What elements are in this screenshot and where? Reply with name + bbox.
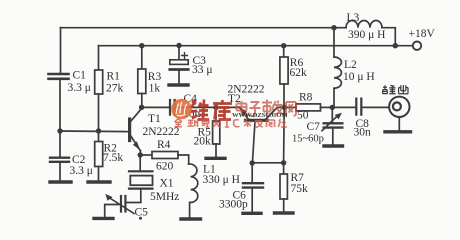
- node C4-R5: [213, 105, 218, 110]
- svg-text:20k: 20k: [194, 136, 212, 148]
- node rail2-R3: [139, 43, 144, 48]
- svg-text:7.5k: 7.5k: [103, 152, 123, 164]
- resistor R3: [138, 69, 146, 94]
- svg-text:33 μ: 33 μ: [192, 64, 213, 76]
- capacitor C6: [251, 163, 253, 183]
- wire base line: [60, 130, 128, 133]
- terminal +18V: [413, 42, 421, 50]
- capacitor C5 (variable trimmer): [121, 196, 125, 212]
- resistor R7: [283, 163, 285, 174]
- wire R6 down to base node: [283, 107, 286, 162]
- node rail1-L3-L2: [331, 25, 336, 30]
- capacitor C4: [170, 100, 175, 115]
- svg-text:620: 620: [156, 161, 174, 173]
- watermark row3: 全球最大IC采购网站: [175, 119, 287, 128]
- resistor R4 (horizontal): [140, 154, 152, 156]
- svg-text:R1: R1: [107, 71, 121, 83]
- inductor L1 (vertical): [189, 164, 198, 202]
- svg-text:3.3 μ: 3.3 μ: [68, 82, 91, 94]
- svg-text:30n: 30n: [354, 126, 372, 138]
- capacitor C1: [49, 74, 69, 79]
- watermark row1 big: 维库: [191, 100, 232, 120]
- resistor R2: [95, 142, 103, 167]
- svg-text:390 μ H: 390 μ H: [348, 29, 385, 41]
- transistor T1 2N2222: [128, 119, 131, 141]
- star mark: [139, 217, 142, 220]
- svg-text:C5: C5: [135, 207, 149, 219]
- inductor L2 (vertical): [333, 28, 335, 57]
- svg-text:L2: L2: [344, 59, 357, 71]
- wire R2 top: [98, 131, 100, 142]
- svg-text:+18V: +18V: [409, 28, 436, 40]
- svg-text:5MHz: 5MHz: [150, 191, 179, 203]
- ground C7: [324, 144, 343, 147]
- svg-text:27k: 27k: [106, 83, 124, 95]
- inductor L3 (horizontal): [334, 27, 346, 29]
- wire C1 column from rail1 down: [60, 28, 62, 73]
- node R6-R8: [282, 105, 287, 110]
- ground C6: [243, 212, 261, 215]
- ground R5: [206, 157, 225, 160]
- wire collector to C4: [142, 106, 170, 108]
- node +18V: [393, 43, 398, 48]
- resistor R5: [215, 108, 217, 122]
- wire C2 top: [59, 131, 61, 157]
- capacitor C3 (electrolytic): [178, 46, 180, 60]
- ground R7: [275, 211, 294, 214]
- ground output: [385, 130, 411, 133]
- node emitter-R4-X1: [138, 152, 143, 157]
- svg-text:3.3 μ: 3.3 μ: [70, 165, 93, 177]
- svg-text:WWW.DZSC.COM: WWW.DZSC.COM: [232, 112, 288, 119]
- svg-text:L3: L3: [347, 12, 360, 24]
- svg-text:3300p: 3300p: [219, 199, 248, 211]
- capacitor C2: [50, 158, 69, 162]
- label 输出 (output, drawn strokes): [383, 85, 409, 94]
- svg-text:X1: X1: [160, 178, 174, 190]
- wire rail1 top (C1 top to L3 left): [61, 27, 333, 29]
- wire R1 column: [98, 46, 100, 70]
- resistor R1: [95, 70, 103, 94]
- svg-text:C1: C1: [73, 70, 87, 82]
- svg-text:15~60p: 15~60p: [292, 133, 324, 144]
- svg-text:T1: T1: [148, 113, 161, 125]
- wire rail2 (R1 corner to +18V node): [99, 45, 396, 47]
- wire to T2 emitter: [216, 106, 240, 108]
- node base T2 / C6: [250, 160, 255, 165]
- output connector: [389, 97, 409, 117]
- capacitor C7 (variable): [324, 123, 343, 127]
- svg-text:330 μ H: 330 μ H: [203, 174, 240, 186]
- ground L1: [181, 217, 201, 220]
- svg-text:62k: 62k: [290, 67, 308, 79]
- watermark row1 small: 电子市场网: [237, 100, 297, 117]
- ground C5: [94, 217, 113, 220]
- svg-text:1k: 1k: [149, 82, 161, 94]
- capacitor C8: [332, 106, 355, 108]
- ground C3: [169, 83, 188, 86]
- wire T2 collector to R8: [277, 106, 296, 108]
- svg-text:R8: R8: [299, 92, 313, 104]
- wire R3 column: [141, 46, 143, 69]
- resistor R8 (horizontal): [296, 104, 321, 111]
- svg-text:C7: C7: [307, 121, 321, 133]
- ground C2: [50, 180, 71, 183]
- svg-text:R3: R3: [148, 71, 162, 83]
- node collector T1: [139, 105, 144, 110]
- watermark logo disc: [171, 99, 192, 120]
- resistor R6: [281, 43, 286, 48]
- transistor T2 2N2222 (common base, drawn inverted): [246, 119, 268, 122]
- ground R2: [88, 180, 110, 183]
- svg-text:2N2222: 2N2222: [143, 126, 180, 138]
- svg-text:50: 50: [297, 110, 309, 122]
- svg-text:10 μ H: 10 μ H: [343, 71, 375, 83]
- node rail2-C3: [176, 43, 181, 48]
- svg-text:75k: 75k: [291, 183, 309, 195]
- node L2-R8-C7-C8: [330, 105, 335, 110]
- node base-C1C2: [57, 128, 62, 133]
- svg-text:C2: C2: [72, 154, 86, 166]
- svg-text:R4: R4: [157, 139, 171, 151]
- crystal X1: [139, 155, 141, 171]
- node base-R1R2: [96, 128, 101, 133]
